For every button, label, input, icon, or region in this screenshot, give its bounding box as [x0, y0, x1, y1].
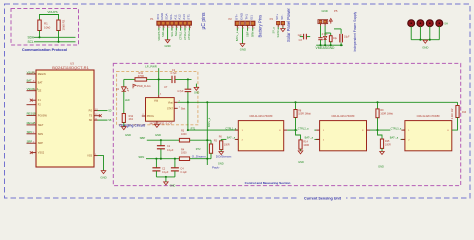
- svg-text:BAT-_a: BAT-_a: [227, 136, 236, 140]
- P2 net wires and labels: [235, 28, 254, 41]
- junction: [155, 158, 157, 160]
- svg-text:Independent Power Supply: Independent Power Supply: [353, 12, 357, 52]
- svg-text:SD: SD: [108, 110, 112, 113]
- junction: [206, 158, 208, 160]
- junction: [158, 78, 160, 80]
- U3 left pins: [27, 74, 37, 153]
- junction: [376, 101, 378, 103]
- svg-text:REG25: REG25: [27, 121, 36, 125]
- wire: [452, 118, 458, 131]
- svg-text:SP+: SP+: [275, 14, 279, 20]
- wire BAT+ bus: [188, 101, 458, 103]
- CTRL3 pins: [401, 130, 405, 139]
- wire: [190, 158, 211, 160]
- svg-text:GND: GND: [239, 12, 243, 20]
- svg-text:SBP: SBP: [246, 31, 250, 37]
- ground: [422, 40, 428, 49]
- wire node SD: [98, 110, 112, 113]
- svg-text:GND: GND: [100, 175, 106, 179]
- wire: [190, 139, 211, 141]
- svg-text:2K2: 2K2: [129, 118, 134, 121]
- Control and Measuring Section box: [113, 63, 460, 185]
- P2 pin stubs: [237, 25, 252, 28]
- P2 pin labels: [234, 12, 253, 20]
- testpoint TP3: [426, 20, 433, 27]
- testpoint TP1: [408, 20, 415, 27]
- wire SCL: [34, 41, 76, 43]
- svg-text:BAT+_a: BAT+_a: [235, 31, 239, 41]
- junction: [38, 36, 40, 38]
- wire SBP row: [147, 139, 180, 141]
- PWR_FLAG flag: [133, 84, 151, 88]
- svg-text:SBP: SBP: [140, 136, 146, 140]
- wire: [58, 31, 60, 42]
- svg-text:VDUPS: VDUPS: [157, 31, 161, 40]
- wire BAT- row: [221, 138, 226, 140]
- P5 pin stubs: [321, 24, 326, 26]
- svg-text:10µ: 10µ: [333, 37, 338, 40]
- resistor R6: [219, 135, 230, 151]
- junction: [340, 44, 342, 46]
- wire: [39, 31, 41, 38]
- svg-text:P1: P1: [150, 17, 154, 21]
- resistor R9: [376, 109, 393, 118]
- wire SDA: [34, 36, 76, 38]
- U7 STAT pin node Stat: [174, 107, 185, 111]
- svg-text:CRL4L42hn7KF8F: CRL4L42hn7KF8F: [417, 114, 441, 118]
- svg-text:Vdd: Vdd: [154, 100, 159, 103]
- svg-text:SRP: SRP: [38, 142, 43, 145]
- svg-text:100R: 100R: [224, 143, 230, 146]
- resistor R1: [38, 20, 51, 31]
- svg-text:4.7µF: 4.7µF: [177, 90, 184, 93]
- svg-text:SRN: SRN: [27, 130, 33, 134]
- P1 pin labels: [156, 12, 190, 20]
- U7 internal pin names: [147, 100, 174, 118]
- svg-text:0.1µF: 0.1µF: [167, 149, 174, 152]
- svg-text:ID1: ID1: [250, 15, 254, 20]
- svg-text:ISET: ISET: [38, 124, 44, 127]
- wire VSS to ground: [98, 156, 104, 171]
- svg-text:100R 1Watt: 100R 1Watt: [298, 113, 311, 116]
- wire: [237, 138, 239, 140]
- U7 PROG pin: [142, 114, 146, 116]
- P4 pin stubs: [278, 25, 283, 27]
- P4 net wire and label: [277, 27, 279, 29]
- svg-text:GND: GND: [170, 183, 176, 187]
- svg-text:GND: GND: [194, 92, 200, 95]
- svg-text:TH1: TH1: [245, 14, 249, 20]
- svg-text:SP_a: SP_a: [273, 27, 276, 34]
- wire: [320, 26, 322, 38]
- wire column B: [377, 102, 379, 109]
- U3 left net labels: [27, 70, 39, 143]
- resistor R15: [380, 139, 391, 148]
- sheet frame: [5, 4, 471, 198]
- junction: [57, 41, 59, 43]
- svg-text:GND: GND: [125, 133, 131, 137]
- svg-text:SRN: SRN: [38, 133, 43, 136]
- node Control and Measuring Section label: [234, 180, 301, 185]
- svg-text:GND: GND: [298, 160, 304, 164]
- svg-text:470R: 470R: [138, 74, 144, 78]
- svg-text:Current Sensing Unit: Current Sensing Unit: [304, 197, 342, 201]
- svg-text:CE: CE: [38, 90, 42, 93]
- capacitor C3: [297, 34, 310, 42]
- testpoint TP4: [436, 20, 443, 27]
- U7 Vbat pin: [174, 100, 188, 102]
- svg-text:Communication Protocol: Communication Protocol: [22, 48, 67, 52]
- testpoint TP2: [417, 20, 424, 27]
- wire down: [187, 79, 189, 89]
- Charging Circuit box: [117, 71, 198, 124]
- svg-text:RT2: RT2: [196, 148, 201, 151]
- svg-text:PWR_FLAG: PWR_FLAG: [137, 85, 151, 88]
- junction: [324, 44, 326, 46]
- svg-text:P2: P2: [229, 17, 233, 21]
- svg-text:SRN: SRN: [251, 32, 255, 38]
- resistor R3: [179, 130, 189, 142]
- svg-text:SH: SH: [444, 21, 448, 25]
- capacitor C5a: [318, 33, 328, 45]
- svg-text:VDUPS: VDUPS: [47, 10, 57, 14]
- wire: [411, 39, 439, 41]
- svg-text:BAT: BAT: [38, 81, 43, 84]
- wire: [123, 92, 125, 114]
- wire: [429, 26, 431, 39]
- svg-text:Pack-: Pack-: [212, 165, 220, 169]
- svg-text:SDA: SDA: [161, 31, 165, 37]
- ground: [164, 182, 176, 188]
- wire jog to R15: [378, 130, 383, 139]
- svg-text:BT+: BT+: [234, 14, 238, 20]
- svg-text:100R: 100R: [385, 143, 391, 146]
- junction: [206, 139, 208, 141]
- ground: [240, 44, 246, 52]
- IC U7: [146, 85, 175, 126]
- svg-text:CRL4L42hn7KF8F: CRL4L42hn7KF8F: [249, 114, 273, 118]
- P2 pad numbers: [238, 27, 255, 29]
- ground: [378, 152, 384, 169]
- CTRL1 pins: [235, 130, 287, 139]
- svg-text:1000: 1000: [181, 152, 187, 155]
- svg-text:VMEASGND: VMEASGND: [316, 46, 335, 50]
- ground P4 pin2: [281, 27, 286, 31]
- svg-text:LP_PWR: LP_PWR: [145, 64, 157, 68]
- wire: [295, 118, 297, 131]
- wire: [381, 148, 383, 151]
- svg-text:SRP: SRP: [27, 140, 33, 144]
- capacitor C7: [171, 159, 187, 177]
- svg-text:GND: GND: [322, 9, 328, 13]
- svg-text:0.1µF: 0.1µF: [180, 171, 187, 174]
- resistor R14: [299, 140, 309, 149]
- resistor R4: [179, 148, 189, 160]
- junction: [294, 101, 296, 103]
- P1 net wires and labels: [157, 28, 191, 41]
- svg-text:SRN: SRN: [138, 155, 144, 159]
- ground: [122, 127, 132, 138]
- ground R6: [218, 152, 224, 166]
- wire: [370, 129, 390, 131]
- wire: [314, 129, 316, 131]
- wire: [175, 78, 191, 80]
- svg-text:10µF: 10µF: [344, 35, 350, 38]
- svg-text:P4: P4: [270, 17, 274, 21]
- U7 Vss pin to ground: [154, 121, 161, 137]
- svg-text:CTRL3_a: CTRL3_a: [391, 127, 402, 130]
- svg-text:GND: GND: [164, 44, 170, 48]
- U3 pin numbers: [32, 72, 35, 143]
- svg-text:O_Disarm: O_Disarm: [192, 154, 206, 158]
- junction: [187, 129, 189, 131]
- wire CTRL1 row: [188, 129, 238, 131]
- svg-text:µC pins: µC pins: [201, 12, 207, 30]
- svg-text:CRL4L42hn7KF8F: CRL4L42hn7KF8F: [331, 114, 355, 118]
- junction: [187, 101, 189, 103]
- svg-text:SDA: SDA: [28, 35, 35, 39]
- capacitor C1: [157, 140, 174, 159]
- capacitor C6: [152, 159, 169, 177]
- svg-text:R13: R13: [462, 112, 467, 114]
- junction: [165, 176, 167, 178]
- svg-text:Vbat: Vbat: [168, 101, 173, 104]
- wire: [187, 92, 189, 130]
- svg-text:SCL: SCL: [170, 31, 174, 37]
- no-connect crosses: [30, 99, 33, 154]
- junction: [294, 129, 296, 131]
- svg-text:100R: 100R: [303, 144, 309, 147]
- junction: [187, 78, 189, 80]
- IC CTRL3: [405, 114, 452, 151]
- Communication Protocol section box: [11, 9, 79, 46]
- svg-text:SCL: SCL: [28, 40, 34, 44]
- svg-text:SD: SD: [89, 119, 93, 122]
- svg-text:DO/Stream: DO/Stream: [216, 154, 232, 158]
- supply arrow VCC: [329, 18, 332, 23]
- resistor R11: [135, 71, 147, 81]
- ground: [100, 171, 106, 180]
- U3 internal pin names: [38, 73, 93, 158]
- svg-text:Battery Pins: Battery Pins: [258, 15, 263, 38]
- svg-text:BAT-_a: BAT-_a: [390, 136, 399, 140]
- svg-text:CTRL2_a: CTRL2_a: [298, 127, 309, 130]
- svg-text:10k0: 10k0: [44, 26, 51, 30]
- svg-text:2.2k0 1W: 2.2k0 1W: [451, 108, 454, 119]
- wire: [40, 15, 59, 21]
- svg-text:MCP73831-2-OT: MCP73831-2-OT: [150, 122, 173, 126]
- wire node SB: [98, 119, 112, 122]
- wire: [287, 129, 297, 131]
- svg-text:CTRL1: CTRL1: [179, 31, 183, 40]
- svg-text:PG/ISW: PG/ISW: [38, 114, 48, 117]
- wire: [438, 26, 440, 39]
- svg-text:GND: GND: [155, 133, 161, 137]
- no-connect cross: [99, 114, 102, 117]
- svg-text:Stat: Stat: [174, 31, 178, 36]
- wire SRN row: [146, 158, 179, 160]
- svg-text:BAT-_a: BAT-_a: [305, 136, 314, 140]
- junction: [174, 158, 176, 160]
- capacitor C4: [334, 29, 350, 45]
- wire: [314, 138, 319, 140]
- svg-text:1000: 1000: [181, 133, 187, 136]
- diode D2: [324, 26, 327, 46]
- svg-text:U7: U7: [164, 85, 168, 89]
- wire BAT+ drop: [206, 102, 208, 165]
- svg-text:GND: GND: [378, 164, 384, 168]
- junction: [419, 39, 421, 41]
- P1 pin stubs: [159, 25, 189, 28]
- svg-text:BAT+_a: BAT+_a: [207, 117, 211, 127]
- svg-text:STAT: STAT: [167, 107, 173, 110]
- wire: [403, 129, 405, 131]
- U7 top pin: [159, 94, 162, 98]
- svg-text:0.1µF: 0.1µF: [162, 171, 169, 174]
- svg-text:Solar Panel Power: Solar Panel Power: [286, 7, 291, 42]
- resistor R8: [294, 109, 311, 117]
- svg-text:LED: LED: [125, 99, 130, 102]
- wire: [300, 149, 302, 151]
- wire: [156, 176, 175, 178]
- wire LP_PWR vertical: [158, 68, 160, 95]
- U3 right pins: [94, 111, 100, 156]
- svg-text:1µF: 1µF: [297, 34, 302, 37]
- junction: [330, 44, 332, 46]
- svg-text:RESCB: RESCB: [27, 112, 36, 116]
- svg-text:BQ24Z110DQCT-R1: BQ24Z110DQCT-R1: [52, 65, 89, 70]
- wire: [147, 78, 172, 80]
- wire: [401, 138, 405, 140]
- svg-text:P5: P5: [334, 9, 338, 13]
- ground: [164, 40, 170, 48]
- capacitor C2: [170, 69, 177, 83]
- wire: [410, 26, 412, 39]
- svg-text:Control and Measuring Section: Control and Measuring Section: [245, 181, 291, 185]
- wire: [123, 123, 125, 127]
- wire to ground P1 pin3: [167, 28, 169, 40]
- capacitor C5: [177, 89, 191, 93]
- svg-text:SP-: SP-: [280, 15, 284, 20]
- svg-text:CTRL3: CTRL3: [187, 31, 191, 40]
- wire column A: [295, 102, 297, 109]
- resistor R12: [122, 114, 134, 123]
- U3 right pin numbers: [95, 109, 98, 156]
- wire: [377, 118, 379, 130]
- wire VMEASGND bus: [316, 44, 343, 46]
- resistor R13: [451, 106, 467, 120]
- svg-text:ST1: ST1: [186, 14, 190, 20]
- wire: [165, 177, 167, 182]
- svg-text:GND: GND: [240, 47, 246, 51]
- svg-text:Stat: Stat: [181, 107, 186, 110]
- P1 pad numbers: [160, 27, 192, 29]
- svg-text:CTRL2: CTRL2: [183, 31, 187, 40]
- svg-text:VSS2: VSS2: [38, 152, 45, 155]
- P4 pin labels: [275, 14, 284, 20]
- ground C5: [194, 84, 200, 95]
- junction: [319, 44, 321, 46]
- svg-text:SolPnl: SolPnl: [277, 30, 280, 38]
- IC CTRL2: [320, 114, 367, 151]
- svg-text:VSS: VSS: [87, 155, 92, 158]
- resistor R2: [57, 19, 66, 30]
- IC CTRL1: [238, 114, 283, 151]
- junction: [160, 158, 162, 160]
- svg-text:GND: GND: [422, 46, 428, 50]
- wire: [419, 26, 421, 39]
- svg-text:REGIN: REGIN: [38, 73, 46, 76]
- junction: [429, 39, 431, 41]
- svg-text:SB: SB: [108, 119, 112, 122]
- resistor R5: [209, 140, 217, 159]
- LED D1: [116, 79, 130, 102]
- svg-text:BAT: BAT: [27, 79, 32, 83]
- wire top horizontal: [124, 78, 135, 80]
- junction: [376, 129, 378, 131]
- resistor R17: [325, 33, 338, 45]
- wire column C: [457, 102, 459, 105]
- IC U3: [36, 61, 94, 167]
- wire to ground P2 pin2: [241, 28, 243, 44]
- svg-text:TS: TS: [89, 115, 93, 118]
- svg-text:PROG: PROG: [147, 115, 154, 118]
- junction: [160, 139, 162, 141]
- svg-text:RT1: RT1: [191, 127, 196, 130]
- ground: [298, 151, 304, 164]
- wire jog to R14: [296, 130, 301, 140]
- svg-text:10k0 R2: 10k0 R2: [62, 19, 66, 30]
- svg-text:PG: PG: [89, 110, 93, 113]
- svg-text:100R 1Watt: 100R 1Watt: [380, 112, 393, 115]
- CTRL2 pins: [316, 130, 370, 139]
- junction: [206, 101, 208, 103]
- node Current Sensing Unit title: [299, 195, 346, 201]
- svg-text:4.7µF: 4.7µF: [170, 72, 177, 75]
